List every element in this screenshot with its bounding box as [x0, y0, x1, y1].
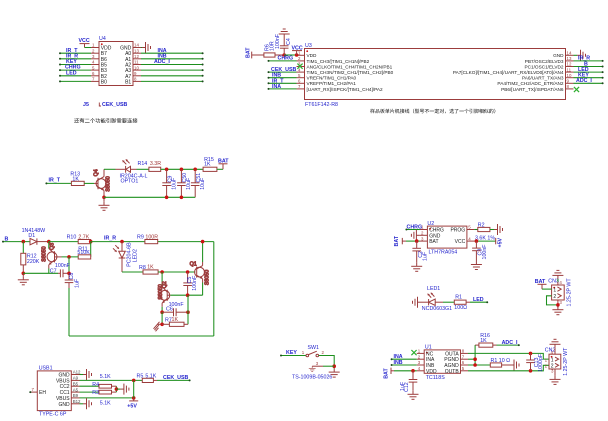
- wire Q2 collector drop: [161, 272, 163, 287]
- wire R11 left to Q3 base: [62, 256, 79, 258]
- junction CN3 ground node: [556, 303, 560, 307]
- wire C5 bottom to C6 right riser: [187, 295, 189, 312]
- svg-text:IR_R: IR_R: [104, 236, 116, 242]
- svg-text:J5: J5: [83, 102, 89, 108]
- ground below SW1: [329, 369, 340, 378]
- wire top rail to loop corner: [158, 241, 214, 243]
- svg-text:R3: R3: [92, 390, 99, 396]
- svg-text:1K: 1K: [172, 317, 179, 323]
- svg-text:R5: R5: [137, 373, 144, 379]
- capacitor C51 10uF: [191, 169, 206, 197]
- wire D1 node down to Q3 collector: [48, 242, 50, 249]
- wire Q1 emitter riser: [202, 283, 204, 296]
- wire C6 left down to R7 left: [161, 312, 163, 324]
- capacitor C2 1uF: [412, 241, 428, 263]
- U4 right pin names: [120, 46, 132, 86]
- wire CC2 B5 to R4: [80, 385, 100, 387]
- wire VBUS B9: [80, 397, 134, 399]
- LED LED1 NCD0603G1: [421, 286, 452, 312]
- svg-text:R2: R2: [478, 223, 485, 229]
- svg-text:PROG: PROG: [450, 228, 465, 234]
- svg-text:NCD0603G1: NCD0603G1: [422, 306, 452, 312]
- wire VBUS A9 to R5: [80, 379, 143, 381]
- ground at U4 pin14: [141, 42, 151, 53]
- junction C9 top: [165, 168, 169, 172]
- junction base node at C7 riser: [67, 255, 71, 259]
- wire R4-R3 tie riser: [115, 386, 117, 392]
- svg-text:CN3: CN3: [548, 279, 559, 285]
- svg-text:1: 1: [545, 357, 548, 362]
- capacitor C13 1000pF: [526, 353, 544, 372]
- wire net B U3 pin12: [574, 66, 604, 68]
- capacitor C12 1uF: [400, 371, 417, 392]
- svg-text:100nF: 100nF: [55, 263, 71, 269]
- svg-text:4: 4: [92, 60, 95, 65]
- U3 right pin numbers: [567, 51, 572, 90]
- svg-text:LED: LED: [66, 70, 77, 76]
- U1 right pin stubs 8-5: [461, 353, 469, 370]
- wire R13 to Q4 base: [84, 182, 94, 184]
- junction C5 bottom node: [186, 293, 190, 297]
- svg-text:1: 1: [553, 288, 556, 294]
- U2 left pin stubs 1-3: [420, 230, 428, 242]
- wire net ADC_I from R16: [497, 344, 520, 346]
- wire U1 pin6 to R1 10R: [468, 364, 490, 366]
- ground below CN3: [552, 306, 563, 315]
- ground below C3: [471, 261, 482, 270]
- wire C4 node to VCC node: [284, 54, 296, 56]
- resistor R12 220K: [21, 242, 40, 274]
- wire net CHRG U4 pin5: [59, 69, 91, 71]
- junction C6 left node: [160, 310, 164, 314]
- wire net INB U3 pin5: [268, 77, 297, 79]
- wire U4 pin7: [59, 80, 91, 82]
- CN2 pin4 stub to top ground: [551, 348, 555, 355]
- junction R7 left node: [160, 323, 164, 327]
- svg-text:U3: U3: [305, 43, 312, 49]
- ground above C4: [279, 29, 290, 38]
- svg-text:4: 4: [468, 236, 471, 241]
- svg-text:+5V: +5V: [498, 237, 504, 247]
- wire U1 pin8 OUTA to CN2: [468, 353, 549, 359]
- svg-text:LTH7RA054: LTH7RA054: [429, 250, 458, 256]
- svg-text:8: 8: [134, 77, 137, 82]
- svg-text:R14: R14: [138, 161, 148, 167]
- SW1 pin3 stub: [312, 361, 334, 366]
- ground at USB1 pin B12: [80, 398, 92, 409]
- svg-text:OPTO1: OPTO1: [121, 178, 139, 184]
- svg-text:7: 7: [92, 77, 95, 82]
- transistor Q2 S8050: [158, 281, 170, 307]
- svg-text:C12: C12: [404, 382, 410, 392]
- svg-text:5.1K: 5.1K: [100, 401, 111, 407]
- junction C9 bottom: [165, 196, 169, 200]
- svg-text:GND: GND: [553, 53, 564, 58]
- wire net IR_T U3 pin6: [268, 82, 297, 84]
- svg-text:5: 5: [298, 73, 301, 78]
- svg-text:BAT: BAT: [245, 47, 251, 58]
- svg-text:U1: U1: [425, 345, 432, 351]
- capacitor C9 10uF: [162, 169, 177, 197]
- USB1 pin7 shield stub: [29, 387, 46, 396]
- ground left of LED1: [413, 297, 422, 308]
- capacitor C7 100nF: [50, 263, 71, 277]
- chip U3 body FT61F142-R8: [305, 43, 566, 108]
- svg-text:510K: 510K: [77, 250, 90, 256]
- svg-text:12: 12: [134, 54, 139, 59]
- wire R11 right riser: [90, 242, 92, 257]
- ground at U3 pin14: [574, 50, 586, 61]
- svg-text:13: 13: [134, 48, 139, 53]
- power BAT at U3 input: [245, 47, 255, 59]
- svg-text:TS-1009B-05026: TS-1009B-05026: [292, 374, 332, 380]
- ground right of R1 10R: [511, 360, 520, 371]
- svg-text:A5: A5: [73, 387, 79, 392]
- svg-text:2: 2: [418, 354, 421, 359]
- wire LED1 to R1: [443, 301, 454, 303]
- junction C7 right node: [67, 272, 71, 276]
- junction C50 top: [180, 168, 184, 172]
- svg-text:220K: 220K: [27, 259, 40, 265]
- svg-text:7: 7: [462, 354, 465, 359]
- svg-text:VREFP/TIM1_CH2/PA1: VREFP/TIM1_CH2/PA1: [307, 81, 357, 86]
- wire net INA U1 pin2: [391, 358, 417, 360]
- wire net IR_R U3 pin13: [574, 60, 604, 62]
- svg-text:SW1: SW1: [308, 345, 320, 351]
- resistor R9 100R: [137, 234, 158, 243]
- chip U4 body: [99, 36, 133, 86]
- svg-text:3: 3: [92, 54, 95, 59]
- U1 left pin names: [426, 351, 437, 374]
- svg-text:PA4/TIM2_CH2/ADC_ETR/AN2: PA4/TIM2_CH2/ADC_ETR/AN2: [497, 81, 563, 86]
- svg-text:2: 2: [298, 56, 301, 61]
- wire R15 to BAT: [217, 168, 223, 170]
- junction D1 cathode node: [47, 240, 51, 244]
- wire C6 right down to R7: [187, 312, 189, 324]
- svg-text:ADC_I: ADC_I: [576, 78, 592, 84]
- junction R16 riser pin6: [473, 363, 477, 367]
- svg-text:CHRG: CHRG: [407, 225, 423, 231]
- resistor R4 5.1K: [92, 382, 116, 388]
- U3 left pin numbers: [298, 51, 301, 90]
- svg-text:1N4148W: 1N4148W: [22, 228, 46, 234]
- wire bottom cap rail: [104, 196, 195, 198]
- junction C4 bottom node: [282, 53, 286, 57]
- U3 right pin stubs 14-8: [566, 55, 574, 89]
- svg-text:S8050: S8050: [158, 284, 164, 299]
- svg-text:S8050: S8050: [106, 176, 112, 191]
- svg-text:1K: 1K: [480, 338, 487, 344]
- svg-text:BAT: BAT: [429, 239, 438, 245]
- svg-text:Q3: Q3: [49, 243, 55, 250]
- junction Q4 emitter node: [102, 196, 106, 200]
- svg-text:CEK_USB: CEK_USB: [163, 375, 188, 381]
- svg-text:11: 11: [134, 60, 139, 65]
- ground above CN3: [552, 270, 563, 279]
- capacitor C8 1uF: [65, 273, 81, 288]
- svg-text:R1 10 Ω: R1 10 Ω: [491, 358, 511, 364]
- wire R8 to Q1 base: [158, 271, 195, 273]
- wire bottom loop across: [69, 335, 214, 337]
- svg-text:CHRG: CHRG: [278, 56, 294, 62]
- svg-text:+5V: +5V: [127, 404, 137, 410]
- annotation chinese note U4: [74, 118, 137, 123]
- junction VBUS node top: [132, 379, 136, 383]
- svg-text:5.1K: 5.1K: [145, 373, 156, 379]
- power +5V rail at U2: [496, 237, 504, 247]
- svg-text:LED2: LED2: [132, 249, 138, 262]
- svg-text:2: 2: [92, 48, 95, 53]
- U4 left pin stubs 1-7: [91, 48, 99, 82]
- svg-text:R10: R10: [67, 234, 77, 240]
- wire net INA U3 pin7: [268, 88, 297, 90]
- svg-text:U2: U2: [427, 221, 434, 227]
- svg-text:B9: B9: [73, 393, 79, 398]
- wire emitter rail y295: [170, 294, 202, 296]
- wire loop right riser: [213, 242, 215, 336]
- U2 right pin numbers: [468, 225, 471, 242]
- svg-text:1K: 1K: [72, 176, 79, 182]
- wire bottom rail R12 to C7: [23, 272, 58, 274]
- svg-text:1uF: 1uF: [422, 251, 428, 261]
- svg-text:2.7K: 2.7K: [78, 234, 89, 240]
- wire net CEK_USB U3 pin4: [268, 71, 297, 73]
- junction photodiode top: [120, 240, 124, 244]
- capacitor C50 10uF: [177, 169, 192, 197]
- CN3 pin4 stub: [558, 279, 563, 285]
- svg-text:PC204-6B: PC204-6B: [126, 242, 132, 267]
- svg-text:5: 5: [462, 366, 465, 371]
- resistor R10 2.7K: [67, 234, 91, 243]
- chip U1 body TC118S: [424, 345, 460, 382]
- svg-text:VCC: VCC: [455, 239, 466, 245]
- svg-text:B1: B1: [125, 79, 131, 85]
- U4 right pin numbers: [134, 43, 139, 82]
- no-connect X at U3 pin8: [574, 87, 579, 92]
- U3 left pin stubs 1-7: [297, 55, 305, 89]
- svg-text:6: 6: [92, 71, 95, 76]
- svg-text:R4: R4: [92, 382, 99, 388]
- svg-text:10uF: 10uF: [186, 177, 192, 190]
- svg-text:BAT: BAT: [394, 235, 400, 246]
- wire Q2 emitter to C6: [161, 307, 163, 312]
- svg-text:10uF: 10uF: [200, 177, 206, 190]
- wire net ADC_I U3 pin9: [574, 82, 604, 84]
- svg-text:4: 4: [418, 366, 421, 371]
- wire net IR_R U4 pin3: [59, 58, 91, 60]
- svg-text:TYPE-C 6P: TYPE-C 6P: [39, 411, 67, 417]
- ground at USB1 pin A12: [80, 369, 92, 380]
- capacitor C6 100nF: [162, 302, 188, 316]
- power BAT at U2 pin3: [394, 235, 406, 246]
- resistor R5 5.1K: [137, 373, 158, 382]
- wire C8 bottom loop down: [68, 288, 70, 336]
- svg-text:8: 8: [567, 84, 570, 89]
- svg-text:1.25-2P WT: 1.25-2P WT: [563, 347, 569, 376]
- junction R16 riser pin7: [473, 357, 477, 361]
- junction C13 bottom: [529, 369, 533, 373]
- power VCC at U4 pin1: [79, 38, 90, 48]
- svg-text:CEK_USB: CEK_USB: [102, 102, 127, 108]
- transistor Q4 S8050: [94, 169, 112, 197]
- svg-text:EH: EH: [39, 390, 46, 396]
- junction R12 bottom node: [22, 272, 26, 276]
- wire D1 node to R10: [49, 241, 78, 243]
- wire net ADC_I U4 pin11: [141, 64, 204, 66]
- svg-text:GND: GND: [58, 402, 70, 408]
- resistor R8 1K: [139, 265, 158, 275]
- wire IR_T to R13: [45, 182, 71, 184]
- junction C13 top: [529, 352, 533, 356]
- svg-text:Q1: Q1: [190, 262, 197, 268]
- svg-text:[UART_RX]/ISPCK/[TIM1_CH4]/PA2: [UART_RX]/ISPCK/[TIM1_CH4]/PA2: [307, 87, 384, 92]
- wire U1 pin7: [468, 358, 475, 360]
- CN3 pin3 stub: [558, 300, 563, 308]
- transistor Q3 S8050: [41, 243, 61, 269]
- wire Q4 collector to IR LED: [104, 168, 116, 170]
- wire U4 pin9: [141, 75, 204, 77]
- svg-text:R9: R9: [137, 234, 144, 240]
- wire net CEK_USB from R5: [157, 379, 191, 381]
- svg-text:PB7/OSC2/ELVD3: PB7/OSC2/ELVD3: [525, 59, 564, 64]
- svg-text:ADC_I: ADC_I: [502, 340, 518, 346]
- ground below Q4: [99, 197, 110, 210]
- small ground at SW1 pin3: [309, 366, 316, 371]
- junction R10 right node: [89, 240, 93, 244]
- svg-text:3: 3: [418, 360, 421, 365]
- svg-text:4: 4: [559, 280, 562, 285]
- power BAT at R15: [218, 159, 229, 170]
- svg-text:5: 5: [468, 225, 471, 230]
- resistor R13 1K: [70, 172, 84, 186]
- svg-text:USB1: USB1: [39, 365, 53, 371]
- junction CC pulldown node: [115, 387, 119, 391]
- svg-text:1: 1: [551, 357, 554, 363]
- resistor R16 1K: [475, 333, 496, 347]
- wire U4 pin8: [141, 80, 204, 82]
- svg-text:12: 12: [567, 62, 572, 67]
- wire LED to R14: [137, 168, 149, 170]
- junction VCC node: [295, 53, 299, 57]
- wire net LED U4 pin6: [59, 75, 91, 77]
- svg-text:1: 1: [92, 43, 95, 48]
- wire CC1 A5 to R3: [80, 391, 100, 393]
- svg-text:3.3R: 3.3R: [150, 161, 161, 167]
- wire KEY to SW1: [280, 355, 306, 357]
- svg-text:1uF: 1uF: [75, 278, 81, 288]
- wire photodiode to R8: [122, 271, 143, 273]
- svg-text:100nF: 100nF: [482, 244, 488, 260]
- svg-text:LED: LED: [473, 297, 484, 303]
- resistor R7 1K: [162, 317, 188, 326]
- wire VBUS tie riser: [133, 380, 135, 398]
- connector label CEK_USB: [99, 102, 127, 108]
- svg-text:Q4: Q4: [94, 169, 100, 176]
- svg-text:1K: 1K: [147, 265, 154, 271]
- svg-text:U4: U4: [99, 36, 106, 42]
- IR LED OPTO1 IR204C-A-L: [116, 159, 148, 184]
- svg-text:IR_T: IR_T: [49, 178, 61, 184]
- U4 right pin stubs 14-8: [133, 48, 141, 82]
- chassis ground left of R7: [154, 322, 161, 332]
- U1 right pin numbers: [462, 349, 465, 371]
- svg-text:1K: 1K: [204, 161, 211, 167]
- svg-text:1: 1: [302, 350, 305, 355]
- connector CN3 1.25-2P WT: [548, 278, 572, 307]
- svg-text:TC118S: TC118S: [426, 375, 446, 381]
- svg-text:10uF: 10uF: [171, 177, 177, 190]
- wire CN3 pin2 loop to ground node: [547, 296, 558, 305]
- U2 right pin names: [450, 228, 465, 246]
- connector USB1 TYPE-C 6P body: [37, 365, 71, 417]
- svg-text:9: 9: [134, 71, 137, 76]
- power BAT at CN3: [535, 279, 547, 289]
- ground below CN2: [550, 376, 561, 385]
- svg-text:C8: C8: [69, 273, 75, 280]
- svg-text:7: 7: [298, 84, 301, 89]
- U1 left pin numbers: [418, 349, 421, 371]
- svg-text:2: 2: [322, 350, 325, 355]
- junction SW1 pin3 node: [332, 364, 336, 368]
- resistor R6 10R: [255, 41, 284, 57]
- svg-text:1: 1: [418, 349, 421, 354]
- svg-text:6: 6: [462, 360, 465, 365]
- wire net INA U4 pin13: [141, 52, 204, 54]
- svg-text:B12: B12: [73, 399, 81, 404]
- junction C3 top node: [475, 239, 479, 243]
- wire R16 riser to U1 pins 7,6: [474, 345, 476, 365]
- switch SW1 TS-1009B-05026: [292, 345, 332, 380]
- svg-text:C4: C4: [286, 38, 292, 45]
- wire BAT to U2 pin3: [406, 240, 420, 242]
- U2 left pin numbers: [421, 225, 424, 242]
- svg-text:FT61F142-R8: FT61F142-R8: [305, 102, 338, 108]
- wire net KEY U3 pin10: [574, 77, 604, 79]
- power BAT at U1 pin4: [383, 368, 394, 379]
- svg-text:7: 7: [32, 387, 35, 392]
- junction Q2 collector node: [160, 270, 164, 274]
- svg-text:B5: B5: [73, 381, 79, 386]
- wire net CHRG U3 pin2: [268, 60, 297, 62]
- ground above CN2: [550, 339, 561, 348]
- connector CN2 1.25-2P WT: [545, 347, 569, 376]
- capacitor C4 100nF: [275, 33, 292, 55]
- wire Q1 collector riser: [202, 242, 204, 262]
- svg-text:PA6/UART_TX/AN3: PA6/UART_TX/AN3: [522, 76, 564, 81]
- wire U2 pin4 to +5V: [474, 240, 495, 242]
- svg-text:2: 2: [421, 231, 424, 236]
- wire net LED U3 pin11: [574, 71, 604, 73]
- photodiode LED2 PC204-6B: [113, 242, 138, 272]
- svg-text:14: 14: [567, 51, 572, 56]
- svg-text:C6: C6: [166, 306, 173, 312]
- wire U4 pin10: [141, 69, 204, 71]
- junction VBUS node bottom: [132, 396, 136, 400]
- no-connect X at U1 pin1: [411, 350, 416, 355]
- junction C2 top node: [415, 239, 419, 243]
- svg-text:100nF: 100nF: [192, 275, 198, 291]
- junction C6 right node: [186, 310, 190, 314]
- wire SW1 pin2 to ground drop: [319, 356, 335, 369]
- wire BAT to CN3 pin1: [542, 288, 552, 290]
- svg-text:INA: INA: [272, 84, 281, 90]
- power +5V below VBUS: [127, 398, 138, 410]
- svg-text:PA7[CLKO]/[TIM1_CH4]/UART_RX/E: PA7[CLKO]/[TIM1_CH4]/UART_RX/ELVD0[AT0]/…: [453, 70, 564, 75]
- junction C50 bottom: [180, 196, 184, 200]
- svg-text:6: 6: [298, 79, 301, 84]
- svg-text:10: 10: [134, 65, 139, 70]
- ground below C2: [411, 263, 422, 272]
